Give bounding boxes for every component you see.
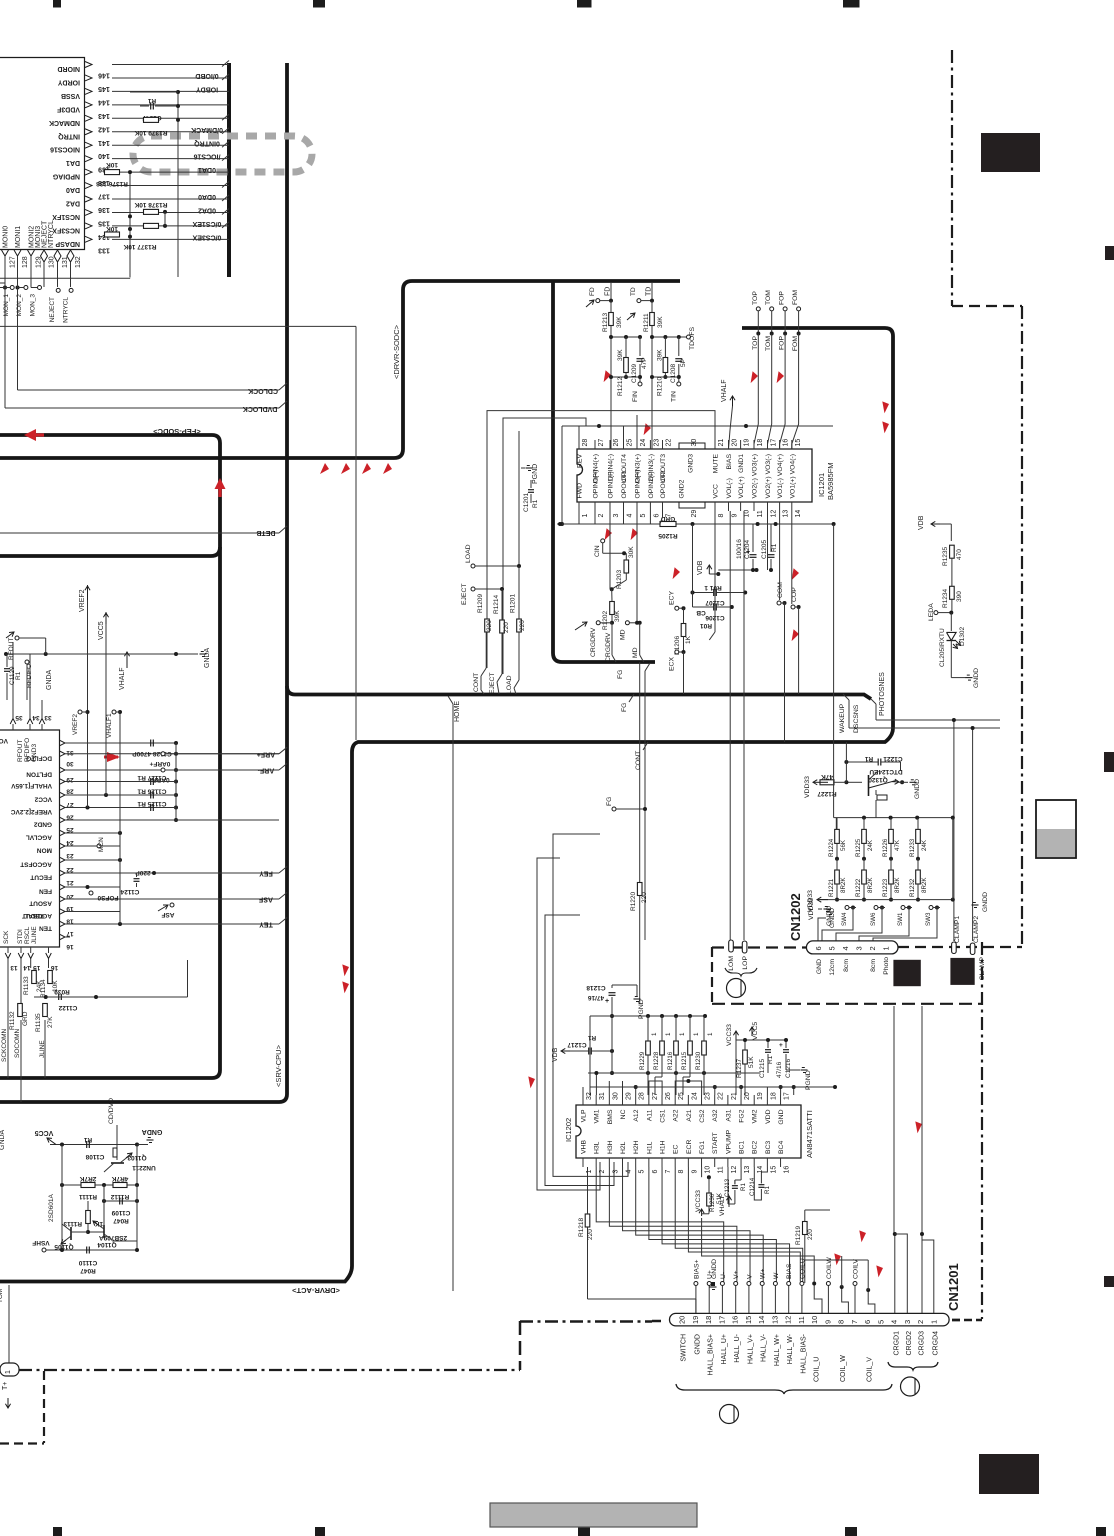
svg-text:C1209: C1209 [631, 363, 638, 383]
red flag top FD [601, 369, 613, 382]
resistor R1220 [637, 883, 642, 896]
label GNDD cn1202 [824, 908, 831, 910]
svg-text:39K: 39K [617, 349, 624, 361]
svg-text:C1208: C1208 [670, 363, 677, 383]
svg-text:12: 12 [731, 1166, 738, 1174]
row ASOUT extras [170, 903, 174, 907]
svg-text:19: 19 [744, 439, 751, 447]
svg-text:LOAD: LOAD [506, 675, 513, 694]
svg-text:56K: 56K [840, 839, 847, 851]
svg-text:C1124: C1124 [120, 888, 139, 895]
svg-text:ECR: ECR [686, 1140, 693, 1154]
wire route x553 [553, 834, 628, 1176]
svg-text:27: 27 [598, 439, 605, 447]
svg-text:28: 28 [66, 788, 74, 795]
svg-text:VHALF: VHALF [119, 667, 126, 690]
svg-text:8R2K: 8R2K [840, 877, 847, 893]
resistor R1212 [624, 358, 629, 373]
svg-text:51K: 51K [716, 1192, 723, 1204]
red flag left IC row [107, 752, 120, 762]
svg-text:R1216: R1216 [667, 1051, 674, 1070]
IC1202 pin 6 H1L [648, 1158, 650, 1167]
CN1201 brace main [676, 1384, 892, 1394]
wire route x545 [545, 915, 614, 1186]
IC1201 pin 25 OPOUT4 [623, 440, 625, 449]
svg-text:GNDD: GNDD [973, 668, 980, 688]
circle key cn1201 [901, 1377, 920, 1396]
svg-text:13: 13 [783, 510, 790, 518]
svg-text:144: 144 [98, 98, 110, 105]
svg-text:10: 10 [705, 1166, 712, 1174]
svg-text:1: 1 [679, 1032, 686, 1036]
svg-text:SWITCH: SWITCH [681, 1334, 688, 1362]
svg-text:132: 132 [75, 256, 82, 268]
svg-text:27K: 27K [47, 1016, 54, 1028]
wire fan pin6 to CN1201 [649, 1167, 777, 1282]
resistor R1132 [18, 1004, 23, 1017]
svg-text:1: 1 [707, 1032, 714, 1036]
svg-text:12cm: 12cm [829, 959, 836, 976]
bus HOME branch y694 [287, 686, 871, 699]
svg-text:IORDY: IORDY [58, 78, 81, 85]
resistor R1226 47K [889, 829, 894, 843]
svg-text:R1232: R1232 [909, 878, 916, 897]
wire CDLOCK [17, 330, 19, 390]
svg-text:3: 3 [613, 514, 620, 518]
svg-text:100/16: 100/16 [736, 539, 743, 559]
wires SW to CN1202 [822, 908, 853, 942]
black patch right bottom [979, 1454, 1039, 1494]
svg-text:CONT: CONT [473, 673, 480, 692]
bus FEP top zigzag [0, 281, 680, 458]
svg-text:8: 8 [837, 1320, 846, 1324]
node VSHF [42, 1248, 46, 1252]
svg-text:FD: FD [605, 287, 612, 296]
svg-text:MONI0: MONI0 [3, 226, 10, 248]
svg-text:10K: 10K [106, 161, 118, 168]
svg-text:DTC124EU: DTC124EU [869, 768, 903, 775]
servo IC pin 31 [60, 740, 66, 746]
svg-text:BIAS: BIAS [726, 454, 733, 470]
circle key cn1201b [720, 1405, 739, 1424]
svg-text:GNDA: GNDA [46, 669, 53, 690]
dash-dot border y947 right of CN1202 [898, 946, 1022, 948]
red flag pin3 area [602, 527, 614, 540]
svg-text:TOM: TOM [765, 336, 772, 351]
svg-text:15: 15 [744, 1316, 753, 1324]
dash-dot border x1022 vertical [1021, 306, 1023, 947]
svg-text:<SRV-CPU>: <SRV-CPU> [274, 1044, 283, 1087]
svg-text:27: 27 [652, 1092, 659, 1100]
svg-text:220: 220 [587, 1229, 594, 1240]
wire y377 left [611, 376, 640, 378]
svg-text:26: 26 [613, 439, 620, 447]
svg-text:CRGD4: CRGD4 [932, 1331, 939, 1356]
svg-text:GNDD: GNDD [826, 906, 833, 926]
CN1201 end dash left [652, 1320, 661, 1323]
wire pin24 col [636, 415, 638, 449]
connector T+1 [0, 1363, 19, 1376]
svg-text:24: 24 [691, 1092, 698, 1100]
svg-text:C1127 R1: C1127 R1 [137, 774, 166, 781]
svg-text:R1379 10K: R1379 10K [134, 129, 167, 136]
svg-text:NIORD: NIORD [57, 65, 80, 72]
PGND near FEP box [526, 467, 533, 469]
IDE pin 142 NDMACK [112, 117, 229, 119]
svg-text:H3H: H3H [607, 1140, 614, 1154]
wire IDE bottom join [129, 277, 131, 280]
svg-text:R1378 10K: R1378 10K [134, 201, 167, 208]
wire MON2 node [16, 286, 20, 290]
svg-text:PHOTOSNES: PHOTOSNES [879, 672, 886, 716]
svg-text:BC1: BC1 [739, 1141, 746, 1154]
wire IDE col x178 [177, 92, 179, 277]
resistor R1225 24K [862, 829, 867, 843]
svg-text:136: 136 [98, 206, 110, 213]
resistor R1216 1 [674, 1041, 679, 1055]
IDE pin 140 NIOCS16 [112, 144, 229, 146]
resistor R1213 [609, 313, 614, 326]
svg-text:8: 8 [718, 514, 725, 518]
dashed box y1443 horizontal [0, 1442, 44, 1444]
black patch right top [981, 133, 1040, 172]
svg-text:3: 3 [854, 946, 863, 950]
resistor R1379 [144, 117, 159, 122]
svg-text:WAKEUP: WAKEUP [839, 703, 846, 733]
svg-text:7: 7 [665, 1170, 672, 1174]
IC1201 pin 14 VO1(+) [791, 502, 793, 511]
IC1202 pin 29 NC [622, 1095, 624, 1105]
svg-text:C1125 R1: C1125 R1 [137, 800, 166, 807]
IC1201 pin 15 VO4(-) [791, 440, 793, 449]
svg-text:VSHF: VSHF [32, 1239, 49, 1246]
svg-text:R1228: R1228 [653, 1051, 660, 1070]
svg-text:R1: R1 [83, 1136, 92, 1143]
nodes SW switches [845, 906, 849, 910]
wire VO2+ col [767, 511, 769, 570]
svg-text:VHALF1: VHALF1 [106, 713, 113, 738]
svg-text:TOM: TOM [765, 290, 772, 305]
svg-text:ECY: ECY [669, 591, 676, 605]
wire y377 right2 [652, 376, 679, 378]
svg-text:R1: R1 [587, 1034, 596, 1041]
node LOAD [518, 431, 520, 566]
dash-dot border x520 vertical [519, 1321, 522, 1370]
svg-text:C1122: C1122 [58, 1004, 77, 1011]
op-amp IC1201 body [577, 449, 812, 502]
resistor R1378 [144, 209, 159, 214]
wire x562 vertical [561, 426, 563, 524]
rail y1201 [104, 1200, 137, 1202]
resistor R1209 [485, 619, 490, 632]
svg-text:SW6: SW6 [870, 912, 877, 926]
svg-text:MD: MD [632, 647, 639, 658]
red arrow left on bus y435 [24, 429, 36, 441]
svg-text:DCFLTO: DCFLTO [26, 754, 52, 761]
label CONT slash [481, 668, 486, 676]
node V+ [734, 1282, 738, 1286]
resistor R1378b [144, 223, 159, 228]
svg-text:8R2K: 8R2K [867, 877, 874, 893]
resistor R1233 24K [916, 829, 921, 843]
split gray box right [1036, 800, 1076, 858]
wire CLAMP2 drop [972, 728, 974, 941]
resistor R1222 8R2K [862, 870, 867, 884]
svg-text:SCKCOMN: SCKCOMN [1, 1028, 8, 1062]
svg-text:CONT: CONT [635, 751, 642, 770]
wire NTRYCL long [0, 325, 356, 327]
svg-text:CB: CB [696, 609, 706, 616]
svg-text:17: 17 [66, 930, 74, 937]
svg-text:127: 127 [10, 256, 17, 268]
svg-text:GNDA: GNDA [142, 1128, 163, 1135]
svg-text:R1214: R1214 [493, 594, 500, 614]
IC1201 pin 7 OPOUT2 [662, 502, 664, 511]
servo bottom pins [5, 953, 11, 959]
capacitor C1206 [713, 604, 715, 611]
svg-text:31: 31 [599, 1092, 606, 1100]
servo IC pin 28 VHALF[1.65V [60, 779, 66, 785]
svg-text:145: 145 [98, 85, 110, 92]
svg-text:VPUMP: VPUMP [725, 1129, 732, 1154]
IDE pin 137 DA0 [112, 185, 229, 187]
node COILU [800, 1282, 804, 1286]
svg-text:220: 220 [486, 620, 493, 631]
connector CN1201 body [670, 1313, 950, 1326]
svg-text:INTRQ: INTRQ [58, 132, 80, 139]
svg-text:5: 5 [876, 1320, 885, 1324]
wire fan pin3 to CN1201 [609, 1167, 737, 1282]
wire CLAMP1 drop [953, 720, 955, 941]
svg-text:VDD33: VDD33 [804, 776, 811, 798]
svg-text:25: 25 [627, 439, 634, 447]
row FECUT wire [65, 872, 279, 874]
svg-text:4: 4 [626, 1170, 633, 1174]
svg-text:140: 140 [98, 152, 110, 159]
IDE pin 144 VSSB [112, 90, 229, 92]
svg-text:34: 34 [32, 714, 40, 721]
servo IC pin 26 VREF2[2.2VC [60, 805, 66, 811]
IC1202 pin 17 GND [780, 1095, 782, 1105]
svg-text:1: 1 [929, 1320, 938, 1324]
IC1201 GND2 tab [679, 502, 705, 508]
svg-text:24: 24 [66, 839, 74, 846]
svg-text:24: 24 [640, 439, 647, 447]
svg-text:A11: A11 [646, 1109, 653, 1121]
svg-text:PGND: PGND [532, 464, 539, 484]
red flag IC1202 right [911, 1119, 925, 1133]
svg-text:22: 22 [666, 439, 673, 447]
node ECX [675, 650, 679, 654]
node CIN [601, 539, 605, 543]
svg-text:R039: R039 [54, 988, 70, 995]
svg-text:4R7K: 4R7K [111, 1175, 128, 1182]
svg-text:COM: COM [777, 582, 784, 598]
svg-text:VCC33: VCC33 [695, 1190, 702, 1212]
svg-text:C1217: C1217 [567, 1041, 587, 1048]
svg-text:9: 9 [732, 514, 739, 518]
label GNDD clamp [972, 904, 979, 906]
IC1202 pin 5 H2H [635, 1158, 637, 1167]
svg-text:ASOUT: ASOUT [29, 900, 52, 907]
svg-text:C1110: C1110 [78, 1259, 97, 1266]
red flag pin23 [641, 422, 653, 435]
svg-text:NDMACK: NDMACK [49, 119, 80, 126]
IC1202 pin 2 H3L [595, 1158, 597, 1167]
svg-text:VOL(+): VOL(+) [738, 476, 745, 498]
edge mark right 2 [1104, 752, 1114, 772]
svg-text:133: 133 [98, 246, 110, 253]
svg-text:VO3(-): VO3(-) [765, 454, 772, 474]
svg-text:BMS: BMS [607, 1109, 614, 1124]
svg-text:17: 17 [784, 1092, 791, 1100]
svg-text:C1109: C1109 [111, 1209, 130, 1216]
svg-text:30: 30 [66, 760, 74, 767]
svg-text:CN1202: CN1202 [788, 893, 803, 941]
svg-text:ECX: ECX [669, 657, 676, 671]
resistor R1113 1K [86, 1211, 91, 1224]
svg-text:R047: R047 [80, 1267, 96, 1274]
svg-text:MD: MD [620, 629, 627, 640]
svg-text:CD/DVD: CD/DVD [108, 1098, 115, 1124]
svg-text:R1224: R1224 [828, 838, 835, 857]
svg-text:9: 9 [691, 1170, 698, 1174]
svg-text:1: 1 [665, 1032, 672, 1036]
svg-text:20: 20 [732, 439, 739, 447]
node TD [651, 283, 653, 301]
svg-text:NDASP: NDASP [55, 240, 80, 247]
IC1201 pin 6 OPIN2(-) [649, 502, 651, 511]
node AGCLVL [118, 831, 122, 835]
node FIN [638, 382, 642, 386]
svg-text:17: 17 [717, 1316, 726, 1324]
svg-text:22: 22 [66, 866, 74, 873]
node 0ARF+ [161, 752, 165, 756]
wire GND2 col down [692, 524, 694, 607]
node CRGDRV [575, 622, 587, 630]
svg-text:R1205: R1205 [658, 532, 678, 539]
label EJECT slash [497, 674, 502, 682]
servo IC pin 19 ASOUT [60, 896, 66, 902]
resistor R1236 51K [707, 1193, 712, 1206]
IDE pin 139 DA1 [112, 158, 229, 160]
resistor R1203 [624, 560, 629, 573]
wire y1087 ic1202 [590, 1086, 835, 1088]
resistor R1376 [105, 170, 120, 175]
registration mark bottom 2 [315, 1527, 325, 1536]
svg-text:143: 143 [98, 112, 110, 119]
wire LOM long [729, 511, 731, 940]
node W+ [760, 1282, 764, 1286]
svg-text:25: 25 [66, 826, 74, 833]
svg-text:47K: 47K [894, 839, 901, 851]
capacitor C1124 220P [134, 878, 140, 880]
rail SW bottom y899 [820, 899, 953, 901]
wire pin3 col down [609, 511, 611, 589]
svg-text:R1132: R1132 [9, 1011, 16, 1030]
svg-text:C1215: C1215 [759, 1058, 766, 1078]
diode D1302 LED [947, 632, 957, 640]
node FD [610, 283, 612, 301]
svg-text:EJECT: EJECT [489, 672, 496, 694]
IC1202 pin 24 A21 [687, 1095, 689, 1105]
svg-text:IC1202: IC1202 [564, 1118, 573, 1142]
wire x833 down [833, 524, 835, 818]
IC1201 pin 28 REV [578, 440, 580, 449]
svg-text:VO1(+): VO1(+) [789, 476, 796, 498]
resistor R1112 4R7K [113, 1183, 127, 1188]
svg-text:GNDD: GNDD [711, 1259, 718, 1279]
IC1202 pin 31 VM1 [595, 1095, 597, 1105]
IC1202 pin 18 VDD [766, 1095, 768, 1105]
svg-text:MONI1: MONI1 [15, 226, 22, 248]
resistor R1111 2R7K [81, 1183, 95, 1188]
svg-text:LOP: LOP [742, 956, 749, 970]
svg-text:U-: U- [720, 1272, 727, 1279]
svg-text:22: 22 [718, 1092, 725, 1100]
svg-text:W-: W- [773, 1270, 780, 1279]
svg-text:220: 220 [807, 1229, 814, 1240]
svg-text:SW1: SW1 [897, 912, 904, 926]
svg-text:C1221: C1221 [883, 755, 903, 762]
svg-text:A32: A32 [712, 1109, 719, 1121]
svg-text:V-: V- [746, 1273, 753, 1279]
svg-text:START: START [712, 1132, 719, 1154]
dash-dot border right top vertical [951, 50, 953, 306]
resistor R1377 [105, 232, 120, 237]
svg-text:FOM: FOM [792, 336, 799, 351]
node TDOFS [687, 335, 691, 339]
svg-text:V+: V+ [733, 1270, 740, 1279]
svg-text:HALL_W+: HALL_W+ [774, 1334, 781, 1366]
svg-text:DVDLOCK: DVDLOCK [243, 405, 278, 412]
svg-text:GRD: GRD [22, 1011, 29, 1026]
svg-text:LEDA: LEDA [928, 603, 935, 621]
svg-text:0ARF+: 0ARF+ [149, 760, 170, 767]
dash-dot border x712 vertical [711, 947, 713, 1004]
svg-text:26: 26 [66, 814, 74, 821]
IC1202 pin 4 H2L [622, 1158, 624, 1167]
svg-text:13: 13 [10, 964, 18, 971]
bus long vertical x287 [0, 63, 287, 1102]
IC1201 pin 18 VO3(+) [753, 440, 755, 449]
svg-text:COIL_W: COIL_W [840, 1355, 847, 1382]
wire COILV src [867, 1260, 869, 1290]
svg-text:39K: 39K [657, 349, 664, 361]
resistor R1235 470 [950, 545, 955, 558]
svg-text:CS1: CS1 [660, 1109, 667, 1122]
label VREF2 arrow [87, 586, 89, 600]
svg-text:OPIN2(-): OPIN2(-) [648, 471, 655, 498]
svg-text:C1205: C1205 [761, 539, 768, 559]
svg-text:MON: MON [37, 847, 52, 854]
IC1202 pin 25 A22 [674, 1095, 676, 1105]
wire x720 long right [893, 1006, 895, 1234]
rail y1185 [62, 1184, 137, 1186]
IC1201 pin 13 VO1(-) [779, 502, 781, 511]
svg-text:NCS3FX: NCS3FX [52, 226, 80, 233]
wire servo bottom bus [34, 996, 188, 998]
svg-text:8cm: 8cm [843, 959, 850, 972]
red flag CN1201 wire2 [830, 1251, 844, 1265]
svg-text:R047: R047 [113, 1217, 129, 1224]
svg-text:137: 137 [98, 193, 110, 200]
resistor R1227 47K [820, 780, 834, 785]
resistor R1219 220 [803, 1222, 808, 1235]
svg-text:47/16: 47/16 [587, 994, 604, 1001]
node BIAS- [787, 1282, 791, 1286]
IC1202 top wires [635, 1087, 637, 1095]
